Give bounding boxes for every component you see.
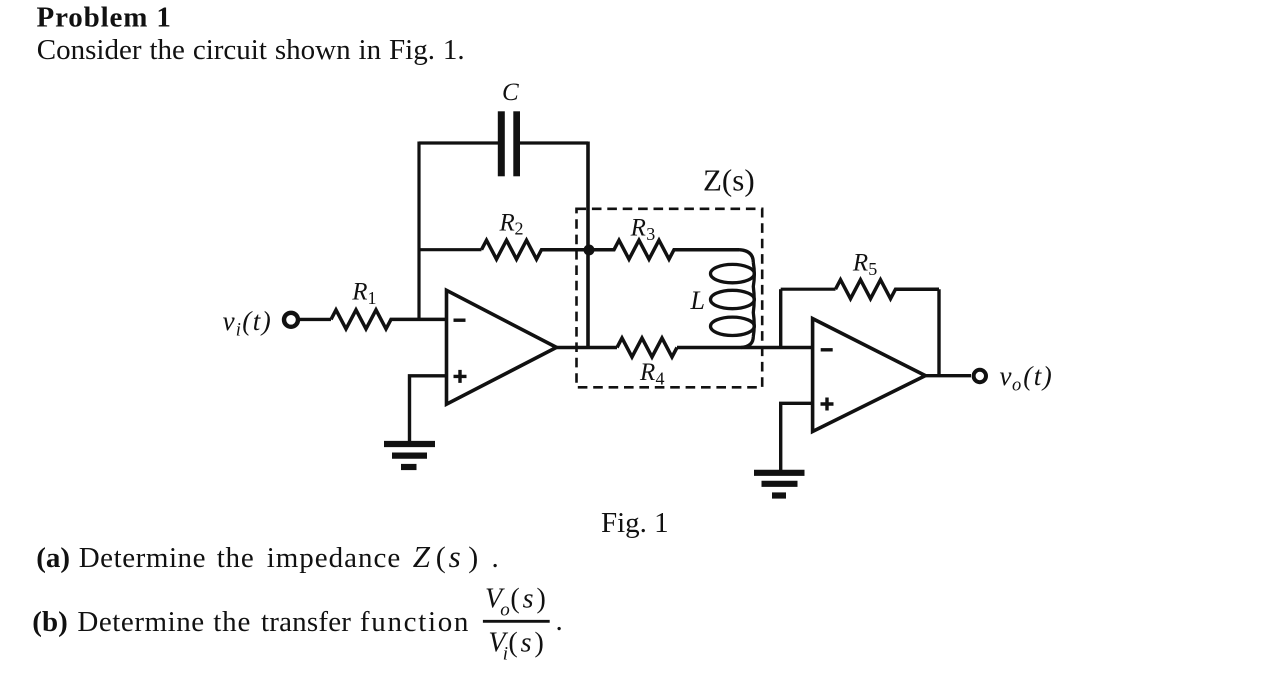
svg-text:Fig. 1: Fig. 1 [601,507,669,539]
op-amp U1 plus sign [454,370,467,383]
resistor R2 [482,240,589,259]
svg-text:Determine: Determine [79,542,206,574]
svg-text:s: s [521,628,532,659]
node junction dot [584,245,595,256]
label R1 [351,278,376,308]
text Consider the circuit shown in Fig. 1. [37,34,465,66]
svg-text:L: L [690,286,705,315]
svg-text:(: ( [510,584,519,615]
label Z(s) [703,163,755,198]
svg-text:R: R [852,249,868,276]
label vi(t) [223,306,273,341]
svg-text:(: ( [436,541,446,574]
inductor L coil [711,250,755,348]
label R4 [639,359,665,389]
label L [690,286,705,315]
label C [502,79,519,106]
svg-text:Consider the circuit shown in: Consider the circuit shown in Fig. 1. [37,34,465,66]
svg-text:.: . [556,605,563,637]
svg-text:): ) [537,584,546,615]
impedance box Z(s) dashed [577,209,763,387]
svg-text:Problem 1: Problem 1 [37,1,172,33]
wire input to R1 [300,318,331,321]
svg-text:4: 4 [656,368,665,388]
svg-text:(b): (b) [32,606,67,638]
wire top feedback horizontal (capacitor branch) [419,141,588,144]
svg-text:function: function [360,606,470,638]
svg-text:o: o [500,600,510,621]
wire U1 plus input [410,376,447,441]
caption Fig. 1 [601,507,669,539]
resistor R1 [331,310,447,329]
svg-text:R: R [499,209,515,236]
svg-text:): ) [535,628,544,659]
svg-text:Determine: Determine [77,606,204,638]
svg-text:Z(s): Z(s) [703,163,755,198]
wire R5 branch left [781,288,836,291]
text (b) Determine the transfer function [32,606,470,638]
label R2 [499,209,524,238]
terminal output circle [974,370,986,382]
wire U2 output [925,374,971,377]
op-amp U1 minus sign [454,319,466,322]
svg-text:R: R [630,215,646,242]
label R3 [630,215,656,245]
wire U2 feedback left vertical [779,289,782,347]
svg-text:v: v [1000,361,1012,391]
svg-text:the: the [217,542,255,574]
svg-text:(t): (t) [1023,361,1053,391]
op-amp U2 minus sign [821,348,833,351]
svg-text:(t): (t) [242,306,272,336]
svg-text:transfer: transfer [261,606,351,638]
wire U1 output [556,346,617,349]
capacitor C [498,111,520,176]
svg-text:o: o [1012,376,1021,396]
svg-text:5: 5 [868,259,877,279]
svg-text:C: C [502,79,519,106]
op-amp U2 plus sign [821,398,834,411]
label vo(t) [1000,361,1054,396]
svg-text:(: ( [508,628,517,659]
svg-text:1: 1 [368,288,377,308]
text (a) Determine the impedance Z(s) . [36,539,499,574]
resistor R5 [836,280,940,299]
svg-text:R: R [639,359,655,386]
wire R4 to op-amp U2 [677,346,813,349]
svg-text:(a): (a) [36,542,70,574]
terminal input circle [284,313,298,327]
fraction Vo(s)/Vi(s) [483,584,563,665]
svg-text:s: s [449,539,461,574]
svg-text:s: s [523,584,534,615]
svg-text:Z: Z [413,539,431,574]
wire left feedback vertical [417,142,420,320]
label R5 [852,249,877,279]
wire R2 branch left [419,248,482,251]
wire U2 plus input [781,403,813,470]
svg-text:impedance: impedance [267,542,402,574]
svg-text:i: i [236,320,241,340]
resistor R4 [617,338,677,357]
wire right feedback vertical [586,142,590,348]
op-amp U1 [447,290,557,404]
title Problem 1 [37,1,172,33]
svg-text:3: 3 [646,224,655,244]
ground G2 [754,473,805,496]
svg-text:the: the [213,606,251,638]
ground G1 [384,444,435,467]
svg-text:): ) [468,541,478,574]
svg-text:i: i [503,644,508,665]
resistor R3 [588,240,739,259]
svg-text:v: v [223,306,235,336]
svg-text:R: R [351,278,367,305]
svg-text:.: . [492,542,499,574]
svg-text:2: 2 [515,219,524,239]
op-amp U2 [813,319,926,432]
wire R5 right vertical [937,289,940,376]
